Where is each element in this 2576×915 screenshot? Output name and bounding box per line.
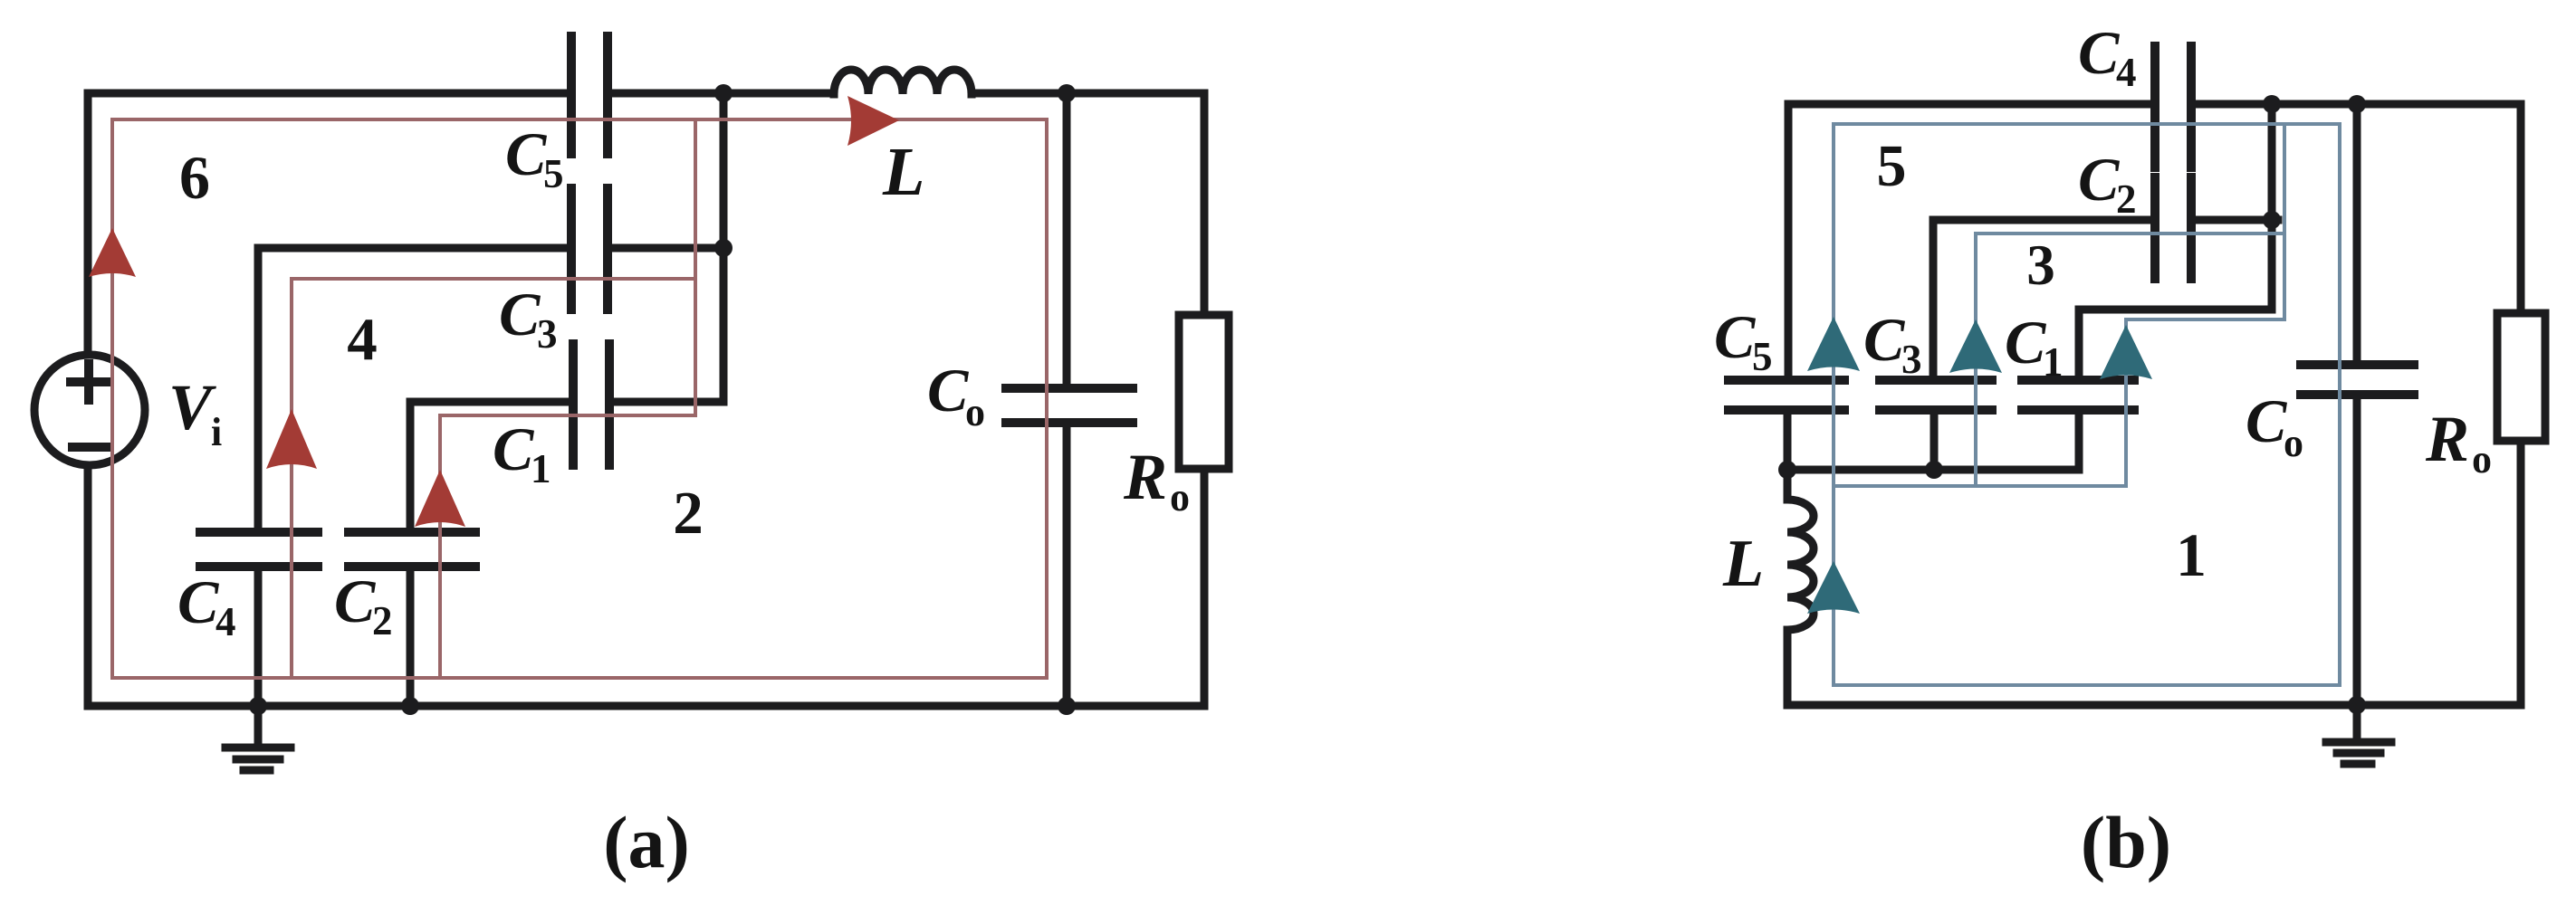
svg-text:2: 2 [372,598,393,643]
wire: (b) left rail from inductor to bottom [1784,630,1792,705]
inductor L (b) [1787,500,1814,630]
wire: (a) C4 branch lower to bottom rail [254,570,263,706]
wire: (b) second rail from C3 corner to C2 left plate [1933,216,2155,224]
wire: (a) bottom rail [88,702,1204,710]
svg-text:R: R [2425,403,2469,475]
wire: (b) Co branch lower to bottom rail [2353,398,2361,705]
svg-text:i: i [211,410,222,454]
red loop 2 left segment through C2 [438,415,442,678]
wire: (b) left rail upper to C5 [1785,104,1793,376]
node: (b) mid rail / C3 junction [1925,461,1943,479]
wire: (b) third rail [2079,306,2272,314]
wire: (b) Co branch upper [2353,104,2361,361]
red loop 6 right segment [1045,119,1049,678]
wire: (a) left rail upper (Vi top to top rail) [84,93,92,354]
wire: (a) vertical bus from top rail to third rail [720,93,728,402]
wire: (b) left rail from mid rail to inductor [1784,470,1792,500]
capacitor Co (a) plates [1006,388,1133,423]
blue loop 3 top segment [1976,232,2284,235]
voltage source Vi circle [34,355,145,465]
svg-text:(a): (a) [603,801,690,883]
node: (b) second rail / bus junction [2263,211,2281,229]
wire: (b) C3 branch lower to mid rail [1930,414,1939,470]
wire: (a) top rail from C5 right plate to inductor [608,90,834,98]
wire: (a) C2 branch lower to bottom rail [407,570,415,706]
node: (a) bottom rail / C2 junction [401,697,419,715]
svg-text:3: 3 [2026,234,2055,297]
red arrow on loop 2 (up) [415,470,465,527]
svg-text:C: C [177,567,219,636]
svg-text:C: C [2078,18,2120,87]
capacitor C1 (b) plates [2022,380,2134,410]
capacitor C1 (a) plates [573,344,609,465]
wire: (b) mid rail riser to C1 bottom plate [2075,414,2083,470]
wire: (b) right rail lower [2517,441,2525,705]
svg-text:C: C [499,280,541,348]
capacitor C4 (a) plates [200,532,318,567]
capacitor C4 (b) plates [2155,46,2191,167]
red loop 2 top segment [440,414,695,417]
blue loop segment through C1 [2124,319,2128,486]
svg-text:5: 5 [1752,334,1773,379]
wire: (a) C4 branch upper [254,248,263,529]
wire: (b) mid rail [1787,466,2079,474]
blue loop 5/1 left segment through C5 and L [1832,124,1835,685]
wire: (a) Co branch upper [1063,93,1071,385]
node: (a) second rail / vertical bus junction [714,239,733,257]
capacitor C3 (a) plates [571,188,608,310]
svg-text:o: o [2284,421,2303,465]
svg-text:3: 3 [1901,337,1922,382]
svg-text:C: C [334,567,376,635]
wire: (b) top rail left of C4 [1788,100,2155,109]
ground (a) [254,706,263,746]
wire: (a) C2 branch upper [407,402,415,529]
teal arrow above C5 (up) [1807,317,1860,371]
svg-text:4: 4 [347,306,378,373]
svg-text:o: o [965,390,985,434]
svg-text:5: 5 [543,151,564,196]
wire: (a) top rail from inductor to right corner [972,90,1204,98]
svg-text:o: o [1170,475,1190,519]
inductor L (a) [834,70,972,94]
resistor Ro (b) [2497,313,2545,441]
node: (b) top rail / bus junction [2263,95,2281,113]
wire: (b) C5 bottom to mid rail [1784,414,1792,470]
wire: (b) vertical bus from top rail to third rail [2268,104,2276,310]
node: (a) top rail / vertical bus junction [714,84,733,102]
capacitor C5 (a) plates [571,36,608,154]
wire: (b) right rail upper to Ro [2517,104,2525,313]
blue loop 5 right segment [2338,124,2341,685]
red loop bottom shared segment [112,676,1047,680]
Vi plus sign [71,364,107,400]
svg-text:5: 5 [1877,133,1907,199]
node: (a) top rail / Co branch junction [1058,84,1076,102]
ground (b) [2353,705,2361,740]
red arrow on loop 6 left (up) [89,228,136,277]
wire: (b) C3 branch upper [1930,220,1938,376]
svg-text:6: 6 [179,143,210,212]
svg-text:L: L [1722,527,1764,601]
wire: (a) second rail (C4 top to C3 left plate) [258,244,571,253]
capacitor C2 (a) plates [349,532,475,567]
blue horizontal above C1 [2126,318,2284,321]
red arrow on loop 4 (up) [266,409,317,469]
Vi minus sign [72,443,106,452]
wire: (a) right rail lower from Ro to bottom [1201,469,1209,706]
red loop 4 left segment through C4 [290,279,293,678]
svg-text:C: C [493,415,534,483]
svg-text:C: C [2078,145,2120,214]
svg-text:1: 1 [531,446,551,491]
svg-text:1: 1 [2176,520,2207,589]
svg-text:3: 3 [537,311,558,357]
teal arrow above C3 (up) [1949,319,2002,373]
wire: (a) Co branch lower to bottom rail [1063,426,1071,706]
resistor Ro (a) [1179,315,1229,469]
wire: (a) right rail upper to Ro [1201,93,1209,315]
svg-text:R: R [1123,441,1167,513]
red loop 4 top segment [292,277,695,281]
svg-text:1: 1 [2043,339,2064,385]
capacitor C2 (b) plates [2155,177,2191,279]
svg-text:(b): (b) [2081,801,2171,883]
teal arrow above C1 (up) [2100,325,2152,379]
wire: (a) top rail from source to C5 left plate [88,90,571,98]
wire: (a) left rail lower (Vi bottom to bottom rail) [84,465,92,706]
svg-text:o: o [2472,437,2492,481]
capacitor Co (b) plates [2301,365,2414,395]
svg-text:C: C [2246,386,2287,455]
red shared vertical segment right of capacitors [694,119,697,415]
svg-text:C: C [1714,302,1756,371]
wire: (a) third rail (C2 top to C1 left plate) [410,398,573,406]
svg-text:4: 4 [2116,50,2137,95]
blue loop bottom shared segment [1834,683,2340,687]
blue loop 3 left segment through C3 [1974,234,1977,486]
svg-text:C: C [927,356,969,424]
teal arrow beside L (up) [1807,561,1860,614]
svg-text:V: V [168,371,216,443]
red loop 6 left segment [110,119,114,678]
svg-text:C: C [2005,308,2046,376]
wire: (a) second rail from C3 right plate to vertical bus [608,244,723,253]
capacitor C5 (b) plates [1729,380,1844,410]
wire: (a) third rail from C1 right plate to vertical bus [609,398,723,406]
svg-text:2: 2 [673,480,704,547]
blue vertical drop from loop5 top right of C2 [2283,124,2286,319]
svg-text:L: L [882,134,924,210]
blue loop 1 top segment [1834,484,2126,488]
wire: (b) C1 branch top riser [2075,310,2083,376]
wire: (b) second rail from C2 right plate to bus [2191,216,2278,224]
node: (b) bottom rail / ground junction [2348,696,2366,714]
capacitor C3 (b) plates [1880,380,1992,410]
blue loop 5 top segment [1834,122,2340,126]
svg-text:2: 2 [2116,176,2137,222]
node: (b) top rail / Co junction [2348,95,2366,113]
node: (b) mid rail / C5 junction [1778,461,1796,479]
svg-text:C: C [505,119,547,188]
svg-text:4: 4 [215,599,236,644]
svg-text:C: C [1863,305,1905,374]
wire: (b) bottom rail [1787,701,2521,710]
red loop 6 top segment [112,118,1047,121]
node: (a) bottom rail / C4 junction [249,697,267,715]
red arrow on loop 6 top (right, before L) [847,96,899,146]
node: (a) bottom rail / Co junction [1058,697,1076,715]
wire: (b) top rail right of C4 [2191,100,2521,109]
